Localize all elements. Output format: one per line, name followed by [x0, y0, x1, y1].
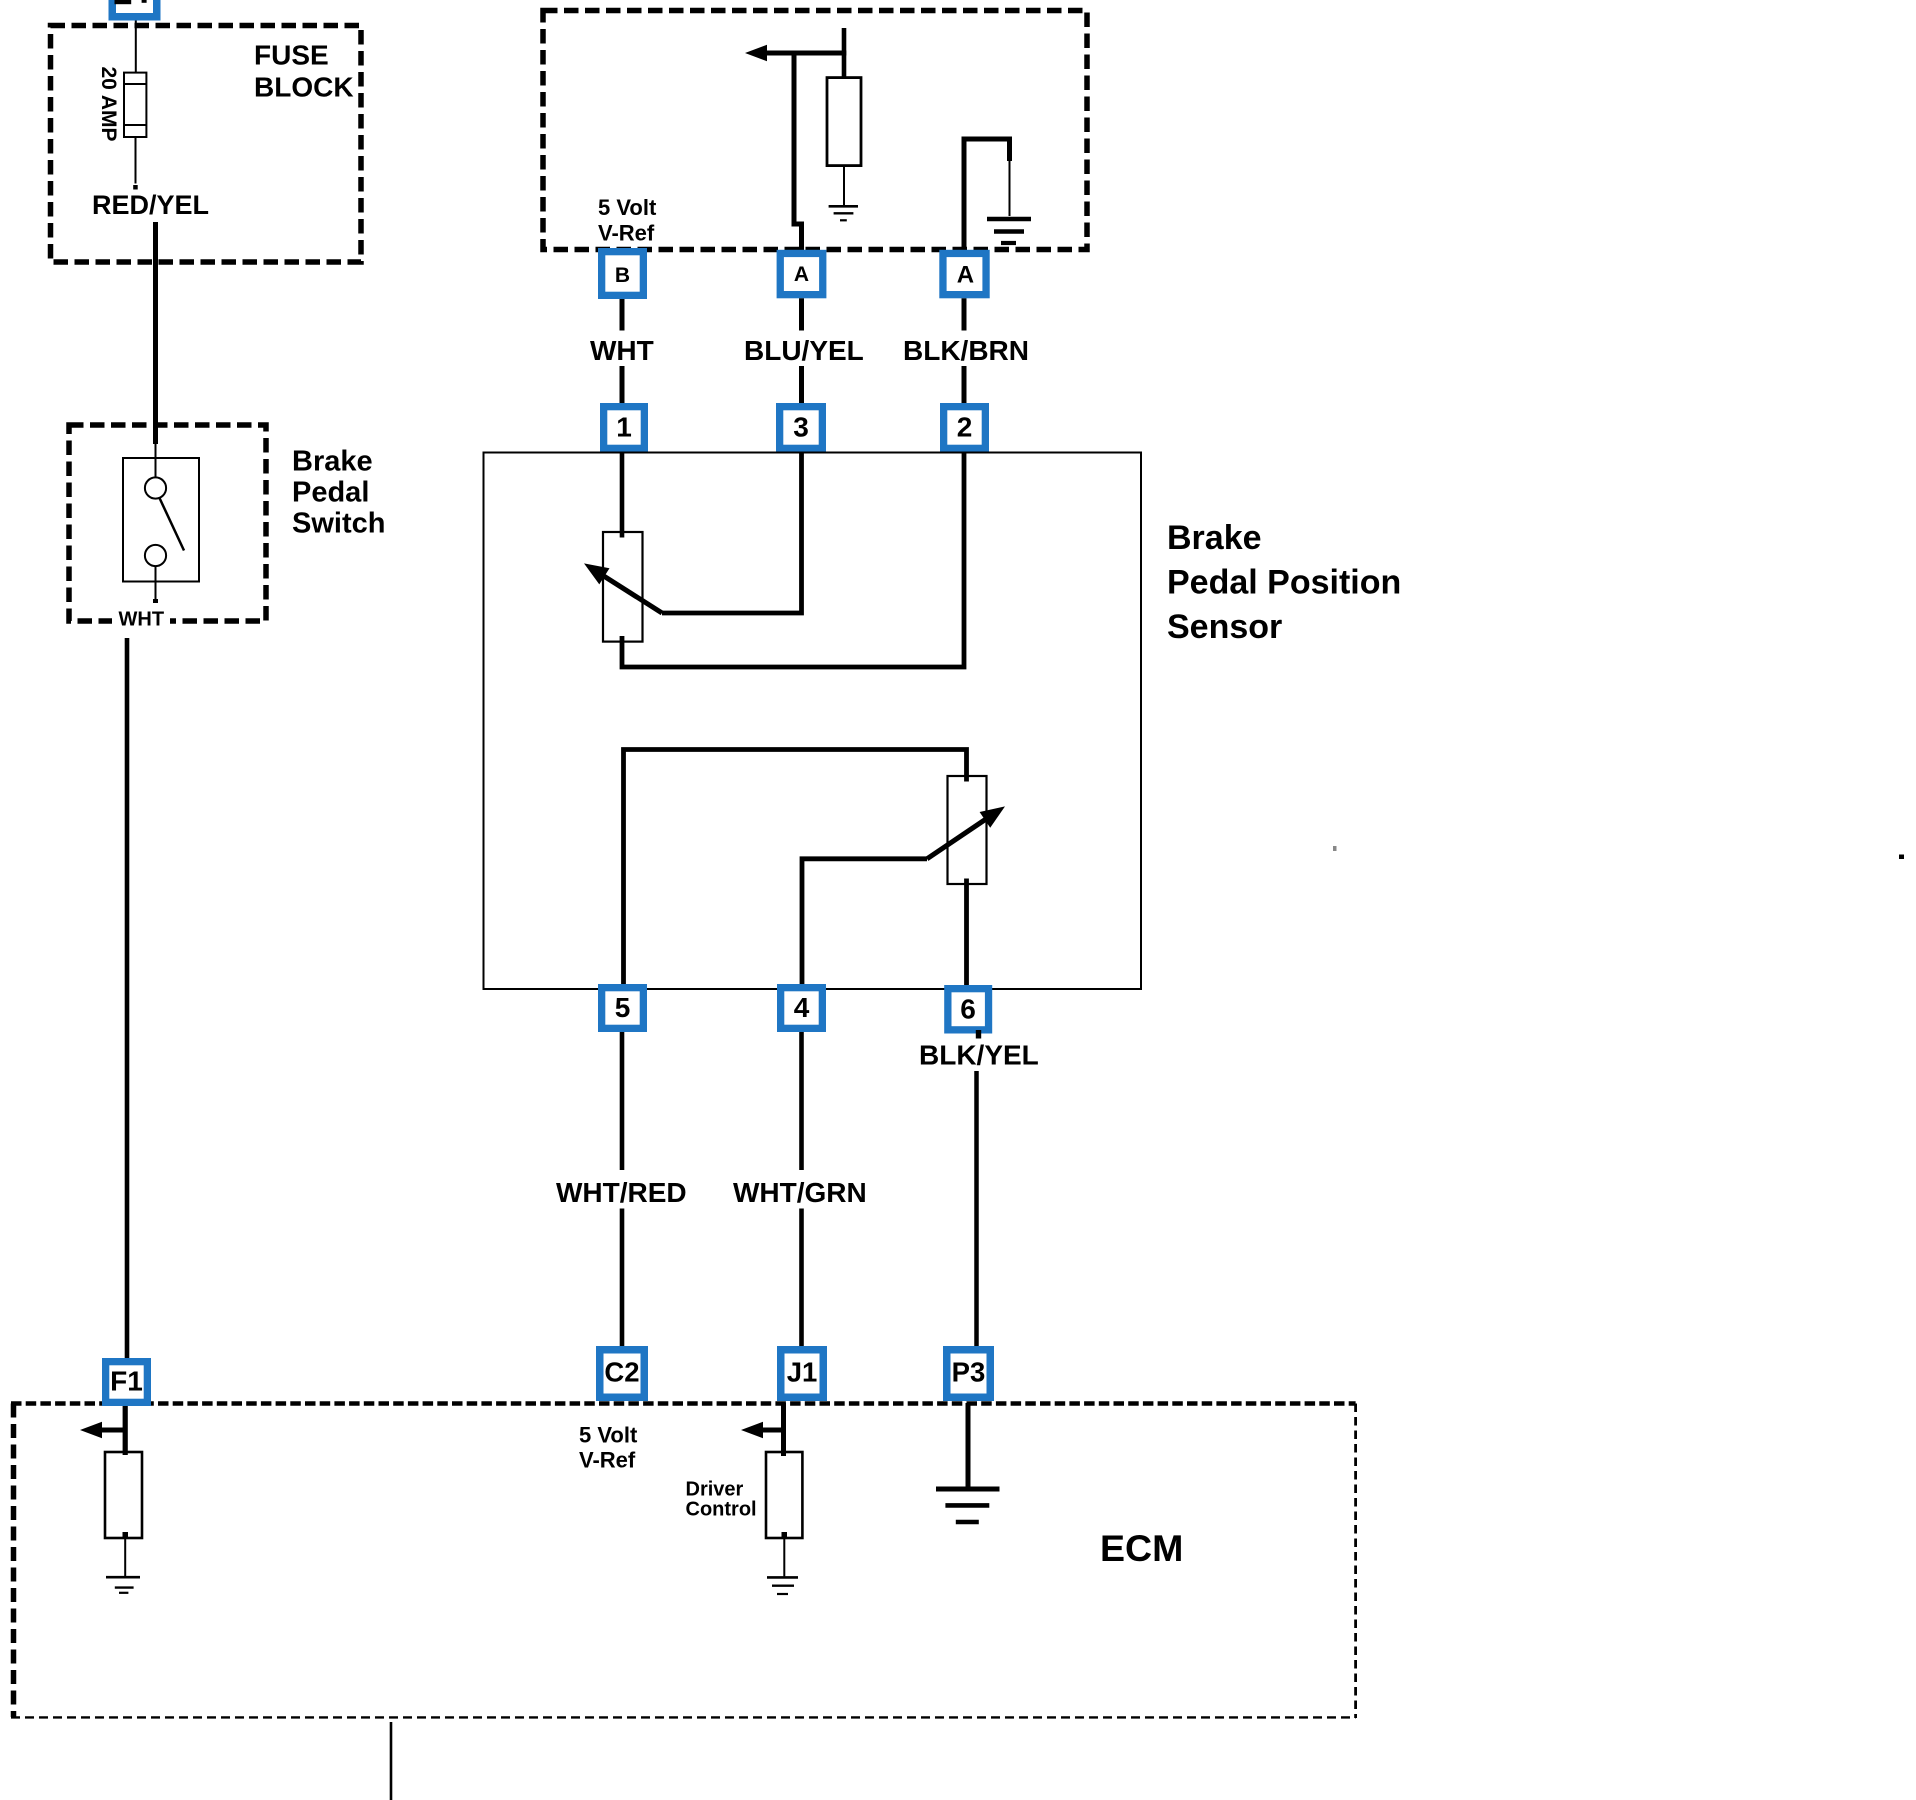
ground (right, top box) — [987, 219, 1031, 243]
svg-text:Pedal Position: Pedal Position — [1167, 564, 1401, 602]
connector pin B — [598, 248, 647, 299]
wire 5 to C2 upper — [620, 1032, 625, 1170]
brake pedal switch S1 — [123, 444, 199, 609]
connector pin A (middle) — [777, 250, 827, 298]
svg-text:WHT/GRN: WHT/GRN — [733, 1177, 867, 1208]
connector B? (cut off at top) — [109, 0, 161, 21]
wire below ECM (cut off) — [390, 1722, 393, 1800]
svg-text:Switch: Switch — [292, 508, 385, 540]
wire pin5 to pot2 top — [624, 750, 967, 990]
wire 4 to J1 lower — [799, 1209, 804, 1347]
connector J1 — [777, 1346, 827, 1401]
svg-text:V-Ref: V-Ref — [598, 220, 655, 245]
wire 4 to J1 upper — [799, 1032, 804, 1170]
stub below pin 6 — [976, 1030, 981, 1039]
wire label WHT (switch output) — [112, 603, 170, 631]
resistor R1 (top box) — [827, 78, 861, 205]
connector pin 3 — [776, 403, 826, 452]
wire 5 to C2 lower — [620, 1209, 625, 1347]
wire 6 to P3 — [974, 1071, 979, 1346]
ground (P3) — [936, 1489, 1000, 1522]
connector pin 6 — [944, 985, 992, 1034]
connector pin A (right) — [939, 250, 989, 298]
wire A(3) to arrow — [794, 53, 802, 250]
connector F1 — [102, 1358, 151, 1406]
potentiometer RP2 — [948, 776, 987, 884]
svg-text:6: 6 — [960, 993, 976, 1024]
svg-text:WHT: WHT — [119, 609, 165, 631]
fuse F 20A — [124, 73, 146, 190]
svg-text:3: 3 — [793, 411, 809, 442]
ground (F1 resistor) — [106, 1577, 140, 1593]
connector pin 4 — [777, 984, 826, 1032]
svg-text:C2: C2 — [604, 1357, 639, 1388]
connector pin 5 — [598, 984, 647, 1032]
stray mark (artifact) — [1333, 846, 1337, 851]
wire pot1 bottom to pin2 — [622, 452, 964, 667]
svg-text:BLK/YEL: BLK/YEL — [919, 1040, 1039, 1071]
svg-text:BLK/BRN: BLK/BRN — [903, 335, 1029, 366]
brake pedal position sensor box — [484, 453, 1142, 990]
brake pedal switch dashed box — [69, 425, 266, 621]
wire J1 into ECM — [781, 1403, 786, 1456]
svg-text:4: 4 — [794, 992, 810, 1023]
wire internal stub — [842, 28, 847, 78]
svg-text:FUSE: FUSE — [254, 39, 329, 70]
wire from connector to fuse — [135, 21, 137, 73]
wiper arrow RP2 — [927, 806, 1005, 858]
svg-text:Pedal: Pedal — [292, 477, 369, 509]
svg-text:Brake: Brake — [1167, 519, 1262, 557]
resistor (driver control) — [766, 1452, 802, 1576]
wire A to 3 — [799, 298, 804, 330]
wire pot2 bottom to pin6 — [964, 879, 969, 990]
svg-text:WHT: WHT — [590, 335, 654, 366]
svg-text:Control: Control — [686, 1499, 757, 1521]
svg-text:A: A — [794, 263, 809, 286]
top dashed box (5V source module) — [543, 11, 1087, 250]
svg-text:A: A — [957, 261, 974, 288]
arrow (F1 net) — [80, 1422, 128, 1439]
svg-text:ECM: ECM — [1100, 1527, 1183, 1569]
svg-text:Driver: Driver — [686, 1478, 744, 1500]
wire A(2) to ground — [964, 139, 1010, 250]
svg-text:Sensor: Sensor — [1167, 608, 1282, 646]
ground (driver control) — [767, 1577, 798, 1594]
svg-text:V-Ref: V-Ref — [579, 1448, 636, 1473]
wire pin1 to pot1 — [620, 452, 625, 538]
wire F1 into ECM — [123, 1406, 128, 1455]
svg-text:5: 5 — [615, 992, 631, 1023]
wiper arrow RP1 — [584, 563, 662, 613]
svg-text:P3: P3 — [952, 1357, 986, 1388]
stray dot (artifact) — [1899, 855, 1904, 860]
svg-text:2: 2 — [957, 411, 973, 442]
svg-text:Brake: Brake — [292, 446, 373, 478]
wire B to 1 — [620, 299, 625, 331]
wire WHT switch to F1 — [125, 638, 130, 1358]
svg-text:J1: J1 — [787, 1357, 818, 1388]
svg-text:20 AMP: 20 AMP — [97, 66, 120, 141]
arrow (J1 net) — [741, 1422, 786, 1439]
resistor (F1 pull) — [105, 1452, 142, 1576]
svg-text:BLOCK: BLOCK — [254, 71, 354, 102]
wire RED/YEL to switch — [153, 222, 158, 444]
arrow 5V ref (top) — [745, 45, 846, 61]
connector pin 2 — [940, 403, 989, 452]
wire pin4 to wiper RP2 — [802, 859, 927, 989]
svg-text:RED/YEL: RED/YEL — [92, 190, 209, 220]
svg-text:F1: F1 — [110, 1366, 143, 1397]
svg-text:1: 1 — [616, 411, 632, 442]
connector C2 — [596, 1346, 648, 1401]
connector pin 1 — [600, 403, 648, 452]
ECM dashed box — [11, 1404, 1356, 1719]
svg-text:5 Volt: 5 Volt — [598, 195, 657, 220]
wire A to 2 — [962, 298, 967, 330]
wire pin3 to wiper RP1 — [662, 452, 802, 613]
wire P3 to ground — [966, 1403, 971, 1487]
svg-text:B: B — [615, 264, 630, 287]
potentiometer RP1 — [603, 532, 643, 642]
svg-text:5 Volt: 5 Volt — [579, 1422, 638, 1447]
svg-text:WHT/RED: WHT/RED — [556, 1177, 687, 1208]
connector P3 — [943, 1346, 994, 1401]
fuse block dashed box — [51, 26, 362, 263]
ground (under R1) — [829, 206, 858, 220]
svg-text:BLU/YEL: BLU/YEL — [744, 335, 864, 366]
